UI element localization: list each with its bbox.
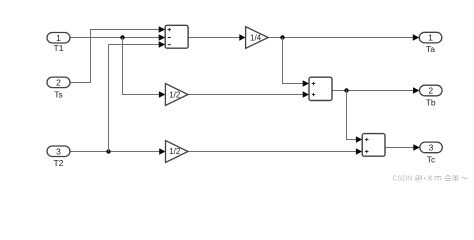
outport 3 oval <box>420 142 443 153</box>
inport label T1 <box>54 43 64 53</box>
wire Gain1 output to Outport Ta <box>268 34 419 41</box>
wire T1 branch down to Gain2 input <box>123 38 166 98</box>
wire Sum1 output to Gain1 input <box>188 34 246 41</box>
svg-text:1/2: 1/2 <box>169 147 181 156</box>
svg-text:Ta: Ta <box>426 44 435 54</box>
inport 1 oval <box>47 33 70 44</box>
gain block Gain2 value 1/2 <box>165 84 188 106</box>
wire Ts to Sum1 input 1 <box>70 26 165 82</box>
outport label Tb <box>426 98 436 108</box>
inport label Ts <box>54 90 63 100</box>
svg-text:Tb: Tb <box>426 98 436 108</box>
svg-text:2: 2 <box>56 77 61 87</box>
svg-text:3: 3 <box>56 146 61 156</box>
outport label Tc <box>427 154 436 164</box>
wire Gain2 output to Sum2 input 2 <box>188 91 309 98</box>
wire Sum3 output to Outport Tc <box>385 144 420 151</box>
wire Tb branch down to Sum3 input 1 <box>347 91 363 143</box>
svg-text:1/2: 1/2 <box>169 90 181 99</box>
svg-text:1/4: 1/4 <box>250 33 262 42</box>
svg-text:Tc: Tc <box>427 154 436 164</box>
svg-text:1: 1 <box>428 33 433 43</box>
sum block Sum2 <box>309 77 332 100</box>
outport 2 oval <box>420 85 443 96</box>
svg-text:3: 3 <box>429 143 434 153</box>
wire T2 to Gain3 input <box>70 148 166 155</box>
wire Sum2 output to Outport Tb <box>332 87 420 94</box>
outport label Ta <box>426 44 435 54</box>
node junction on T1 wire <box>120 35 124 39</box>
svg-text:Ts: Ts <box>54 90 63 100</box>
svg-text:T1: T1 <box>54 43 64 53</box>
svg-text:T2: T2 <box>54 158 64 168</box>
watermark CSDN <box>393 175 468 182</box>
node junction on Tb wire <box>344 88 348 92</box>
outport 1 oval <box>419 32 442 43</box>
wire T2 branch up to Sum1 input 3 <box>109 41 166 151</box>
node junction on T2 wire <box>106 149 110 153</box>
gain block Gain3 value 1/2 <box>166 141 189 163</box>
svg-text:1: 1 <box>56 33 61 43</box>
sum block Sum3 <box>362 134 385 157</box>
node junction on Ta wire <box>280 35 284 39</box>
wire Ta branch down to Sum2 input 1 <box>283 38 310 87</box>
gain block Gain1 value 1/4 <box>246 27 269 49</box>
svg-text:CSDN @: CSDN @ <box>393 175 422 182</box>
inport label T2 <box>54 158 64 168</box>
sum block Sum1 <box>165 25 188 48</box>
svg-text:2: 2 <box>428 86 433 96</box>
wire T1 to Sum1 input 2 <box>70 34 165 41</box>
inport 2 oval <box>47 77 70 88</box>
wire Gain3 output to Sum3 input 2 <box>188 148 362 155</box>
inport 3 oval <box>47 146 70 157</box>
